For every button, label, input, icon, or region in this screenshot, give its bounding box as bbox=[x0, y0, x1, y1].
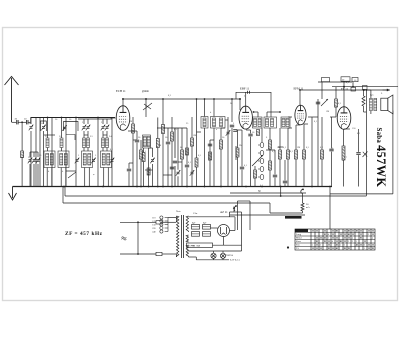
wire riser bbox=[343, 81, 345, 87]
trimmer capacitor bbox=[92, 159, 95, 161]
trimmer capacitor bbox=[42, 126, 45, 128]
wire bbox=[266, 112, 268, 117]
wire bbox=[87, 148, 89, 152]
hook plug bbox=[301, 189, 303, 194]
svg-text:EBF 11: EBF 11 bbox=[240, 87, 250, 91]
component box top 1 bbox=[351, 87, 356, 91]
aux box 2 bbox=[341, 77, 350, 81]
wire bbox=[143, 162, 145, 187]
resistor bbox=[301, 203, 304, 211]
wire bbox=[237, 201, 239, 230]
aux box 1 bbox=[322, 78, 330, 82]
wire tie bbox=[149, 147, 153, 149]
wire bbox=[140, 140, 142, 150]
junction bbox=[343, 86, 345, 88]
speaker bbox=[381, 95, 393, 114]
capacitor feedback bbox=[247, 91, 249, 94]
wire bbox=[269, 203, 271, 213]
wire bbox=[229, 212, 231, 217]
wire bbox=[21, 158, 23, 187]
junction bbox=[279, 111, 281, 113]
wire bbox=[254, 178, 256, 187]
junction bbox=[162, 98, 164, 100]
trimmer capacitor bbox=[106, 126, 109, 128]
capacitor antenna series 1 bbox=[16, 120, 18, 124]
wire top aux bbox=[318, 81, 352, 83]
junction bbox=[329, 186, 331, 188]
trimmer capacitor bbox=[83, 126, 86, 128]
resistor bbox=[295, 150, 298, 159]
wire bbox=[129, 162, 133, 164]
wire bbox=[329, 187, 331, 230]
wire bbox=[157, 118, 159, 139]
wire bbox=[47, 117, 49, 138]
wire bbox=[128, 172, 130, 187]
wire bbox=[370, 90, 372, 98]
junction bbox=[261, 186, 263, 188]
wire bbox=[186, 128, 188, 164]
wire tie bbox=[266, 149, 275, 151]
wire bbox=[222, 258, 224, 259]
wire tie bbox=[296, 124, 300, 126]
svg-text:9: 9 bbox=[344, 248, 345, 250]
trimmer capacitor bbox=[76, 159, 79, 161]
table cell digits bbox=[312, 231, 374, 251]
component box top 2 bbox=[363, 86, 368, 90]
wire tie bbox=[221, 127, 225, 129]
wire return bus 1 bbox=[65, 195, 366, 197]
wire bbox=[106, 135, 108, 138]
field coil box bbox=[187, 243, 213, 247]
wire bbox=[269, 170, 271, 187]
table content marks bbox=[312, 230, 374, 249]
junction bbox=[213, 98, 215, 100]
coil bbox=[102, 138, 105, 148]
wire tie bbox=[163, 174, 172, 176]
wire bbox=[213, 251, 215, 253]
wire bbox=[171, 117, 173, 132]
wire top bus right bbox=[332, 86, 398, 88]
junction bbox=[97, 117, 99, 119]
trimmer capacitor bbox=[29, 159, 32, 161]
wire right rail bbox=[392, 111, 394, 194]
wire bbox=[267, 111, 280, 113]
capacitor bbox=[166, 141, 170, 143]
wire bbox=[230, 211, 242, 213]
wire bbox=[168, 217, 176, 219]
svg-text:17m: 17m bbox=[193, 212, 197, 215]
svg-text:1M: 1M bbox=[158, 145, 161, 147]
junction bbox=[280, 195, 282, 197]
svg-text:= 6,3V 0,3 A: = 6,3V 0,3 A bbox=[228, 258, 240, 261]
wire bbox=[196, 99, 198, 158]
wire bbox=[196, 259, 229, 261]
wire bbox=[128, 163, 130, 168]
wire bbox=[254, 111, 259, 113]
junction bbox=[122, 98, 124, 100]
wire bbox=[302, 193, 304, 203]
wire bbox=[102, 131, 104, 135]
wire bbox=[143, 148, 145, 153]
wire anode to HT bbox=[122, 99, 124, 106]
wire bbox=[261, 128, 263, 142]
wire bbox=[87, 119, 89, 124]
wire bbox=[138, 253, 156, 255]
glimm stabiliser bbox=[143, 103, 152, 110]
antenna bbox=[5, 77, 19, 123]
junction bbox=[363, 89, 365, 91]
junction bbox=[311, 186, 313, 188]
wire tie bbox=[157, 127, 163, 129]
capacitor block 3 bbox=[192, 232, 200, 237]
capacitor bbox=[356, 152, 360, 154]
wire bbox=[39, 117, 41, 187]
wire bbox=[152, 164, 154, 187]
wire bbox=[43, 117, 45, 124]
svg-text:9: 9 bbox=[348, 241, 349, 243]
coil bbox=[83, 138, 86, 148]
svg-text:9: 9 bbox=[368, 234, 369, 236]
coil bbox=[106, 138, 109, 148]
trimmer capacitor bbox=[63, 126, 66, 128]
band filter box bbox=[58, 151, 69, 168]
wire tie bbox=[145, 169, 153, 171]
coil bbox=[107, 154, 110, 166]
fuse 2 bbox=[156, 252, 162, 255]
wire bbox=[231, 128, 233, 187]
wire bbox=[106, 131, 108, 135]
svg-text:9: 9 bbox=[352, 241, 353, 243]
wire mains vertical bbox=[137, 222, 139, 254]
wire tie bbox=[246, 129, 251, 131]
capacitor bbox=[185, 164, 189, 166]
wire bbox=[204, 128, 206, 187]
wire bbox=[241, 212, 243, 248]
IF transformer 2 box bbox=[211, 117, 226, 129]
wire bbox=[295, 159, 297, 187]
svg-text:ZF = 457 kHz: ZF = 457 kHz bbox=[65, 231, 103, 237]
junction bbox=[137, 253, 139, 255]
wire bbox=[84, 168, 86, 187]
wire bbox=[222, 251, 224, 253]
wire tie bbox=[278, 146, 283, 148]
mains tilde bbox=[122, 237, 127, 238]
coil bbox=[258, 119, 261, 127]
wire bbox=[274, 178, 276, 187]
trimmer capacitor bbox=[33, 159, 36, 161]
wire bbox=[213, 244, 242, 246]
wire bbox=[311, 117, 313, 187]
resistor bbox=[254, 170, 257, 178]
wire bbox=[106, 119, 108, 124]
junction bbox=[239, 98, 241, 100]
svg-text:2M: 2M bbox=[129, 121, 132, 123]
wire bbox=[136, 143, 138, 187]
wire tie bbox=[304, 123, 308, 125]
wire bbox=[299, 90, 301, 105]
wire rail 2 bbox=[365, 90, 367, 196]
resistor bbox=[162, 125, 165, 134]
junction bbox=[145, 98, 147, 100]
coil bbox=[46, 154, 49, 166]
coil bbox=[203, 118, 206, 127]
wire bbox=[196, 167, 198, 187]
capacitor bbox=[329, 148, 333, 150]
resistor bbox=[195, 158, 198, 167]
junction bbox=[299, 89, 301, 91]
junction bbox=[47, 117, 49, 119]
wire bbox=[280, 187, 282, 197]
junction bbox=[363, 89, 365, 91]
wire bbox=[51, 117, 53, 187]
wire heater top bbox=[189, 250, 242, 252]
capacitor grid bbox=[233, 129, 237, 131]
wire bbox=[83, 148, 85, 152]
coil bbox=[143, 137, 146, 147]
wire bbox=[43, 131, 45, 187]
resistor bbox=[142, 153, 145, 162]
junction bbox=[162, 186, 164, 188]
resistor bbox=[269, 161, 272, 170]
wire column 175 bbox=[174, 128, 176, 158]
junction bbox=[220, 186, 222, 188]
svg-text:9: 9 bbox=[336, 231, 337, 233]
resistor bbox=[236, 148, 239, 157]
wire bbox=[133, 130, 137, 132]
coil bbox=[102, 154, 105, 166]
wire bbox=[235, 146, 237, 160]
wire ground bus bbox=[13, 186, 333, 188]
wire bbox=[162, 99, 164, 125]
svg-text:1: 1 bbox=[364, 248, 365, 250]
wire antenna lead bbox=[12, 121, 17, 123]
svg-text:1M: 1M bbox=[326, 111, 329, 113]
wire bbox=[367, 89, 371, 91]
trimmer capacitor bbox=[30, 126, 33, 128]
capacitor bbox=[240, 166, 244, 168]
junction bbox=[137, 221, 139, 223]
wire bbox=[29, 152, 31, 157]
ground arrow bbox=[9, 187, 17, 201]
wire bbox=[269, 128, 271, 140]
wire bbox=[29, 164, 31, 187]
wire tie bbox=[312, 116, 318, 118]
wire bbox=[343, 129, 345, 146]
capacitor 8uF block 1 bbox=[192, 225, 200, 230]
wire tie bbox=[66, 170, 76, 172]
coil bbox=[88, 154, 91, 166]
aux box 3 bbox=[352, 78, 358, 82]
output transformer secondary bbox=[374, 98, 377, 110]
wire bbox=[162, 253, 176, 255]
IF transformer 1 box bbox=[201, 117, 208, 129]
wire bbox=[37, 152, 39, 157]
wire bbox=[195, 257, 197, 260]
capacitor bbox=[173, 160, 177, 162]
wire tie bbox=[197, 131, 202, 133]
wire bbox=[234, 217, 236, 231]
trimmer capacitor bbox=[177, 171, 180, 173]
junction bbox=[280, 186, 282, 188]
wire bbox=[220, 128, 222, 140]
svg-text:1: 1 bbox=[356, 231, 357, 233]
wire return bus 2 bbox=[63, 202, 270, 204]
wire tie bbox=[30, 151, 38, 153]
wire bbox=[303, 124, 305, 150]
coil bbox=[266, 119, 269, 127]
coupling box bbox=[281, 117, 290, 128]
junction bbox=[145, 98, 147, 100]
wire bbox=[335, 87, 337, 99]
wire mains top bbox=[120, 221, 138, 223]
wire bbox=[65, 168, 67, 187]
coil bbox=[213, 118, 216, 127]
coil bbox=[60, 154, 63, 166]
wire bbox=[358, 129, 360, 152]
junction bbox=[231, 98, 233, 100]
wire bbox=[35, 117, 37, 187]
junction bbox=[140, 186, 142, 188]
resistor bbox=[257, 130, 260, 136]
wire bbox=[191, 146, 193, 187]
junction bbox=[157, 186, 159, 188]
junction bbox=[239, 98, 241, 100]
resistor bbox=[140, 150, 143, 159]
wire bbox=[30, 117, 32, 124]
svg-text:glimm: glimm bbox=[142, 90, 149, 93]
coil bbox=[286, 119, 289, 127]
switch arrow bbox=[252, 155, 263, 166]
fuse bbox=[156, 221, 162, 224]
wire bbox=[321, 159, 323, 187]
wire bbox=[111, 117, 113, 187]
wire tie bbox=[344, 128, 350, 130]
wire bbox=[230, 192, 306, 194]
arrow right bbox=[383, 89, 390, 91]
wire tie bbox=[210, 139, 214, 141]
wire top bus left bbox=[31, 117, 115, 119]
wire bbox=[250, 130, 252, 133]
junction bbox=[122, 98, 124, 100]
trimmer capacitor bbox=[111, 159, 114, 161]
wire bbox=[303, 159, 305, 187]
wire bbox=[136, 131, 138, 139]
wire riser 2 bbox=[352, 82, 354, 87]
junction bbox=[75, 117, 77, 119]
wire bbox=[30, 118, 32, 123]
wire bbox=[249, 201, 251, 230]
wire bbox=[106, 148, 108, 152]
wire bbox=[102, 135, 104, 138]
wire bbox=[176, 216, 178, 222]
wire bbox=[87, 135, 89, 138]
wire tie bbox=[236, 129, 242, 131]
wire bbox=[335, 107, 337, 117]
coil bbox=[254, 119, 257, 127]
wire bbox=[370, 111, 372, 114]
wire bbox=[186, 168, 188, 187]
wire bbox=[230, 214, 305, 216]
IF transformer 4 box bbox=[264, 117, 277, 128]
svg-text:mA: mA bbox=[306, 206, 310, 209]
capacitor bbox=[170, 166, 174, 168]
wire bbox=[363, 106, 365, 112]
svg-text:Netz: Netz bbox=[176, 210, 181, 213]
wire bbox=[83, 131, 85, 135]
wire bbox=[343, 160, 345, 187]
table bbox=[295, 229, 375, 250]
junction bbox=[245, 186, 247, 188]
wire tie bbox=[133, 139, 137, 141]
wire bbox=[181, 159, 183, 187]
resistor bbox=[279, 150, 282, 159]
wire bbox=[83, 135, 85, 138]
resistor bbox=[191, 138, 194, 146]
wire bbox=[103, 168, 105, 187]
junction bbox=[63, 186, 65, 188]
wire HV bbox=[189, 216, 236, 218]
capacitor bbox=[135, 139, 139, 141]
svg-text:2: 2 bbox=[316, 241, 317, 243]
wire bbox=[157, 148, 159, 187]
wire bbox=[46, 168, 48, 187]
svg-text:1M: 1M bbox=[297, 147, 300, 149]
wire bbox=[18, 121, 22, 123]
wire bbox=[97, 117, 99, 187]
wire bbox=[279, 159, 281, 187]
wire tie bbox=[330, 116, 336, 118]
loop top 1 bbox=[41, 121, 47, 131]
tube AZ11 bbox=[218, 225, 230, 237]
wire bbox=[61, 117, 63, 138]
coil bbox=[46, 138, 49, 148]
resistor bbox=[171, 132, 174, 141]
tube EM11 bbox=[295, 105, 306, 125]
band filter box bbox=[44, 151, 55, 168]
wire bbox=[288, 116, 292, 118]
wire bbox=[30, 131, 32, 187]
wire bbox=[223, 237, 225, 244]
wire mains bottom bbox=[120, 253, 138, 255]
wire bbox=[22, 121, 26, 123]
wire bbox=[254, 166, 256, 170]
junction bbox=[366, 89, 368, 91]
resistor bbox=[303, 150, 306, 159]
wire bbox=[145, 99, 147, 112]
wire bbox=[189, 256, 197, 258]
wire bbox=[83, 119, 85, 124]
wire bbox=[213, 128, 215, 187]
junction bbox=[196, 98, 198, 100]
wire bbox=[167, 128, 169, 141]
wire bbox=[241, 248, 243, 251]
wire riser pot bbox=[321, 82, 323, 99]
wire top right bus bbox=[300, 89, 390, 91]
wire bbox=[279, 128, 281, 150]
tone switch cross bbox=[363, 152, 368, 158]
wire bbox=[321, 117, 323, 150]
capacitor bbox=[248, 133, 252, 135]
wire bbox=[152, 148, 154, 157]
wire bbox=[233, 207, 235, 213]
svg-text:U 7901 / 63: U 7901 / 63 bbox=[188, 245, 201, 248]
band filter box bbox=[101, 151, 112, 168]
wire bbox=[33, 164, 35, 187]
table header dark cell bbox=[295, 229, 308, 232]
resistor bbox=[287, 150, 290, 159]
svg-text:NSF24: NSF24 bbox=[226, 254, 234, 257]
svg-text:AZ 11: AZ 11 bbox=[220, 210, 228, 214]
